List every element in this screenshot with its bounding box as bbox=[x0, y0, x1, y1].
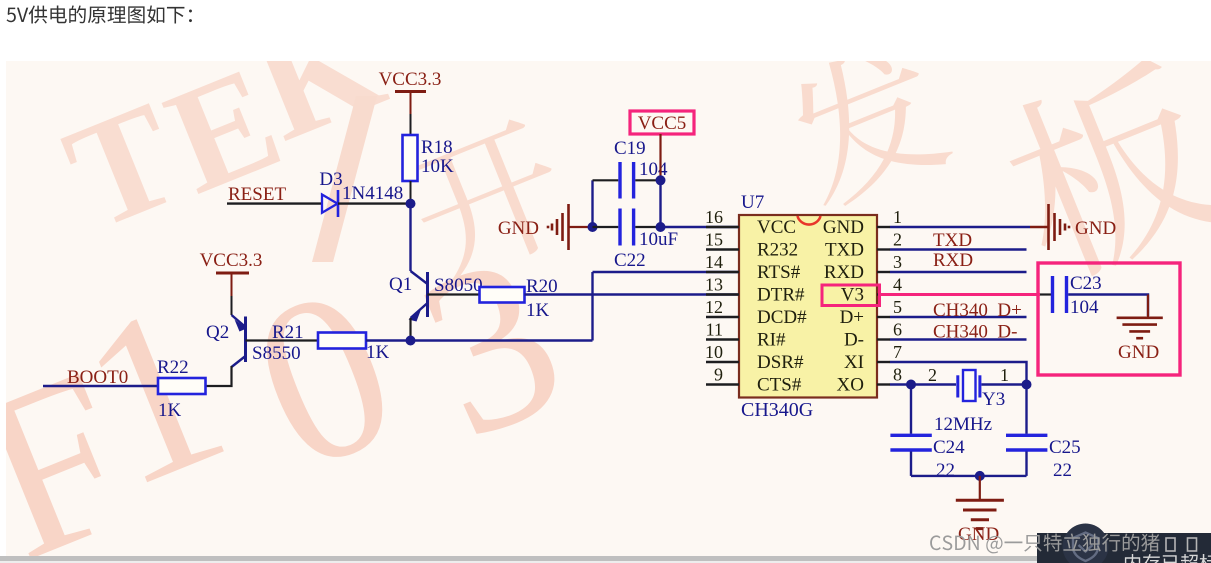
wire Q1 base to R20 bbox=[428, 293, 480, 295]
svg-text:GND: GND bbox=[1075, 218, 1116, 239]
wire C19 to VCC5 node bbox=[635, 179, 660, 181]
transistor Q1 S8050 bbox=[389, 271, 483, 322]
node junction Q1 emitter / R21 bbox=[406, 336, 416, 346]
svg-text:2: 2 bbox=[893, 230, 902, 250]
wire Y3 right bbox=[982, 383, 1027, 385]
svg-text:Q1: Q1 bbox=[389, 274, 412, 295]
power VCC3.3 (Q2 emitter supply) bbox=[200, 250, 263, 296]
svg-text:RXD: RXD bbox=[933, 250, 973, 271]
node junction VCC5/C19 bbox=[656, 175, 666, 185]
wire junction up to C19 row bbox=[591, 180, 593, 227]
svg-text:7: 7 bbox=[893, 342, 902, 362]
highlight box around C23 bbox=[1038, 263, 1180, 375]
resistor R20 bbox=[480, 276, 558, 321]
net V3 (boxed) bbox=[822, 285, 880, 306]
svg-text:Y3: Y3 bbox=[982, 389, 1005, 410]
wire junction to C22 bbox=[593, 226, 619, 228]
svg-text:1N4148: 1N4148 bbox=[342, 183, 403, 204]
svg-text:V3: V3 bbox=[841, 285, 864, 306]
net label VCC5 (boxed) bbox=[630, 111, 694, 134]
capacitor C19 104 bbox=[614, 138, 668, 199]
svg-text:RI#: RI# bbox=[757, 330, 786, 351]
wire down to C24 bbox=[910, 385, 912, 434]
wire VCC5 down bbox=[659, 134, 661, 180]
svg-text:S8550: S8550 bbox=[252, 343, 301, 364]
svg-text:9: 9 bbox=[714, 365, 723, 385]
diode D3 1N4148 bbox=[319, 169, 403, 217]
svg-text:14: 14 bbox=[705, 252, 723, 272]
svg-text:CH340G: CH340G bbox=[741, 399, 813, 421]
watermark char fa bbox=[775, 32, 957, 213]
wire down to C25 bbox=[1025, 385, 1027, 434]
crystal Y3 12MHz bbox=[928, 365, 1009, 435]
watermark char kai bbox=[399, 112, 578, 288]
svg-text:XO: XO bbox=[837, 375, 864, 396]
wire vertical to pin14 row bbox=[591, 272, 593, 341]
pin 14 RTS# bbox=[705, 252, 801, 283]
wire pin4 V3 to C23 (highlighted) bbox=[880, 293, 1041, 296]
svg-text:C23: C23 bbox=[1070, 273, 1102, 294]
svg-text:GND: GND bbox=[1118, 342, 1159, 363]
svg-text:5: 5 bbox=[893, 297, 902, 317]
pin 15 R232 bbox=[705, 230, 798, 261]
ground GND (crystal) bbox=[956, 500, 1004, 528]
overlay text 内存已超标 bbox=[1125, 554, 1211, 563]
svg-text:C25: C25 bbox=[1049, 437, 1081, 458]
capacitor C22 10uF bbox=[614, 209, 678, 272]
wire pin8 XO to crystal bbox=[890, 383, 911, 385]
node junction C22/pin16 bbox=[656, 222, 666, 232]
ground GND (pin1) bbox=[1049, 204, 1070, 250]
svg-text:RESET: RESET bbox=[228, 184, 286, 205]
pin 11 RI# bbox=[706, 320, 786, 351]
wire VCC5 node down to pin16 row bbox=[659, 180, 661, 227]
resistor R18 bbox=[403, 135, 455, 181]
wire BOOT0 bbox=[43, 385, 158, 387]
wire VCC3.3 to Q2 emitter bbox=[231, 296, 233, 315]
wire D3 to node bbox=[338, 202, 411, 204]
svg-text:TXD: TXD bbox=[825, 240, 864, 261]
wire node to Q1 collector bbox=[409, 204, 411, 271]
watermark stroke bbox=[312, 96, 377, 262]
svg-text:6: 6 bbox=[893, 320, 902, 340]
video overlay dark box bbox=[1037, 533, 1211, 563]
wire R21 to node bbox=[366, 339, 411, 341]
svg-text:D3: D3 bbox=[319, 169, 342, 190]
wire R20 to U7 pin13 DTR# bbox=[525, 293, 740, 295]
svg-text:15: 15 bbox=[705, 230, 723, 250]
svg-text:VCC: VCC bbox=[757, 217, 796, 238]
svg-text:DSR#: DSR# bbox=[757, 352, 804, 373]
pin 4 V3 bbox=[841, 275, 902, 306]
svg-text:11: 11 bbox=[706, 320, 723, 340]
pin 10 DSR# bbox=[705, 342, 804, 373]
pin 7 XI bbox=[844, 342, 902, 373]
wire C22 to pin16 node bbox=[635, 226, 660, 228]
wire to Y3 left bbox=[911, 383, 956, 385]
pin 9 CTS# bbox=[706, 365, 802, 396]
wire pin7 XI to crystal bbox=[890, 362, 1027, 385]
resistor R22 bbox=[157, 357, 206, 421]
svg-text:RTS#: RTS# bbox=[757, 262, 801, 283]
svg-text:Q2: Q2 bbox=[206, 322, 229, 343]
wire Q2 collector down to R22 net bbox=[206, 366, 232, 386]
svg-text:12: 12 bbox=[705, 297, 723, 317]
svg-text:D+: D+ bbox=[840, 307, 864, 328]
svg-text:104: 104 bbox=[1070, 297, 1099, 318]
svg-text:CH340 D-: CH340 D- bbox=[933, 322, 1017, 343]
pin 12 DCD# bbox=[705, 297, 807, 328]
ground GND (C19/C22) bbox=[548, 204, 569, 250]
svg-text:10: 10 bbox=[705, 342, 723, 362]
svg-text:VCC3.3: VCC3.3 bbox=[200, 250, 263, 271]
wire pin1 to GND bbox=[890, 226, 1030, 228]
svg-text:XI: XI bbox=[844, 352, 864, 373]
svg-text:1: 1 bbox=[1000, 365, 1009, 385]
logo circle bbox=[1063, 524, 1109, 563]
wire Q2 base to R21 bbox=[246, 339, 319, 341]
wire VCC3.3 to R18 bbox=[410, 114, 412, 135]
svg-text:12MHz: 12MHz bbox=[934, 414, 992, 435]
svg-text:10uF: 10uF bbox=[639, 229, 678, 250]
wire to bottom ground bbox=[979, 476, 981, 500]
svg-text:D-: D- bbox=[844, 330, 864, 351]
wire pin2 TXD bbox=[890, 248, 1027, 250]
node junction XO/C24 bbox=[906, 380, 916, 390]
wire pin6 D- bbox=[890, 338, 1027, 340]
resistor R21 bbox=[272, 322, 390, 363]
wire C24 down bbox=[910, 452, 912, 476]
wire node to RTS# vertical bbox=[411, 339, 593, 341]
svg-text:DTR#: DTR# bbox=[757, 285, 805, 306]
svg-text:U7: U7 bbox=[741, 192, 764, 213]
node junction R18/D3/Q1 bbox=[406, 199, 416, 209]
svg-text:4: 4 bbox=[893, 275, 902, 295]
svg-text:3: 3 bbox=[893, 252, 902, 272]
capacitor C23 104 bbox=[1053, 273, 1102, 318]
IC U7 CH340G body bbox=[739, 192, 877, 421]
svg-text:R18: R18 bbox=[421, 137, 453, 158]
svg-text:1K: 1K bbox=[526, 300, 550, 321]
wire GND to junction bbox=[569, 226, 593, 228]
wire C23 to ground bbox=[1068, 295, 1148, 317]
svg-text:S8050: S8050 bbox=[434, 275, 483, 296]
pin 16 VCC bbox=[705, 207, 796, 238]
pin 1 GND bbox=[823, 207, 902, 238]
svg-text:13: 13 bbox=[705, 275, 723, 295]
pin 8 XO bbox=[837, 365, 902, 396]
node junction bottom GND bbox=[975, 471, 985, 481]
svg-text:1K: 1K bbox=[366, 342, 390, 363]
pin 6 D- bbox=[844, 320, 902, 351]
svg-text:RXD: RXD bbox=[824, 262, 864, 283]
svg-text:R21: R21 bbox=[272, 322, 304, 343]
capacitor C25 22 bbox=[1006, 435, 1081, 481]
svg-text:R232: R232 bbox=[757, 240, 798, 261]
wire pin3 RXD bbox=[890, 271, 1027, 273]
svg-text:C19: C19 bbox=[614, 138, 646, 159]
svg-text:16: 16 bbox=[705, 207, 723, 227]
svg-text:C24: C24 bbox=[933, 437, 965, 458]
svg-text:R22: R22 bbox=[157, 357, 189, 378]
pin 13 DTR# bbox=[705, 275, 805, 306]
page title 5V供电的原理图如下： bbox=[7, 5, 192, 23]
wire to U7 pin14 RTS# bbox=[593, 271, 740, 273]
node junction GND/C22 bbox=[588, 222, 598, 232]
wire pin5 D+ bbox=[890, 316, 1027, 318]
svg-text:GND: GND bbox=[823, 217, 864, 238]
pin 2 TXD bbox=[825, 230, 902, 261]
svg-text:C22: C22 bbox=[614, 250, 646, 271]
svg-text:GND: GND bbox=[498, 218, 539, 239]
wire C25 down bbox=[1025, 452, 1027, 476]
wire Q1 emitter down bbox=[409, 318, 411, 341]
power VCC3.3 (R18 pull-up supply) bbox=[379, 69, 442, 114]
bottom page strip bbox=[0, 556, 1211, 561]
pin 3 RXD bbox=[824, 252, 902, 283]
svg-text:22: 22 bbox=[936, 460, 955, 481]
watermark char ban bbox=[990, 48, 1211, 289]
node junction XI/C25 bbox=[1022, 380, 1032, 390]
svg-text:1: 1 bbox=[893, 207, 902, 227]
transistor Q2 S8550 bbox=[206, 315, 301, 367]
wire RESET bbox=[227, 202, 322, 204]
svg-text:CH340 D+: CH340 D+ bbox=[933, 300, 1022, 321]
svg-text:TXD: TXD bbox=[933, 230, 972, 251]
svg-text:10K: 10K bbox=[421, 156, 454, 177]
svg-text:2: 2 bbox=[928, 365, 937, 385]
ground GND (C23) bbox=[1117, 295, 1163, 339]
svg-text:8: 8 bbox=[893, 365, 902, 385]
pin 5 D+ bbox=[840, 297, 902, 328]
wire node to U7 pin16 VCC bbox=[661, 226, 740, 228]
svg-text:DCD#: DCD# bbox=[757, 307, 807, 328]
svg-text:CTS#: CTS# bbox=[757, 375, 802, 396]
wire R18 to node bbox=[410, 181, 412, 204]
wire bottom rail bbox=[911, 475, 1027, 477]
svg-text:VCC5: VCC5 bbox=[638, 113, 687, 134]
svg-text:VCC3.3: VCC3.3 bbox=[379, 69, 442, 90]
svg-text:1K: 1K bbox=[158, 400, 182, 421]
svg-text:22: 22 bbox=[1053, 460, 1072, 481]
capacitor C24 22 bbox=[890, 435, 965, 481]
